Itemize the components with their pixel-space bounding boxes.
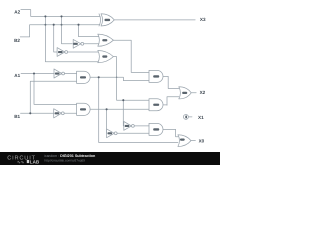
designator text NOT1 xyxy=(73,43,78,45)
wire OR5 output to X0 xyxy=(191,140,195,142)
wire AND3 output tap down to NOT6 input xyxy=(106,109,108,133)
junction on net B1 xyxy=(29,112,31,114)
wire B1 tap up to AND1 input B xyxy=(30,81,76,113)
junction on net B2 line2 at x78 xyxy=(77,24,79,26)
wire line1 tap to NOT1 input xyxy=(62,16,73,43)
inverter NOT1 xyxy=(73,39,84,48)
wire AND4 output to OR5 input A xyxy=(163,129,178,136)
and gate AND3 xyxy=(77,103,91,115)
svg-text:LAB: LAB xyxy=(30,159,40,164)
junction on net A2 line1 at x61 xyxy=(60,15,62,17)
designator text XOR1 xyxy=(105,19,111,21)
and gate AND2 xyxy=(149,70,163,82)
xor gate XOR1 xyxy=(99,14,114,26)
inverter NOT4 xyxy=(54,109,64,118)
and gate AND5 xyxy=(149,99,163,111)
wire NOT1 output to OR1 input B xyxy=(84,43,100,45)
svg-text:A1: A1 xyxy=(14,73,20,78)
designator text AND3 xyxy=(80,108,86,110)
wire NOT2 output to OR2 input A xyxy=(68,51,100,53)
wire crossing smudge at OR2 output column xyxy=(116,77,118,79)
wire crossing smudge at x45 line2 xyxy=(44,24,46,26)
junction at AND3 output xyxy=(106,108,108,110)
wire B2 to line2 xyxy=(20,25,100,37)
junction on net A2 line1 at x45 xyxy=(44,15,46,17)
junction at AND1 output xyxy=(98,76,100,78)
wire OR2 output down to AND5 input A xyxy=(113,57,149,101)
designator text NOT6 xyxy=(108,132,113,134)
inverter NOT6 xyxy=(107,129,118,138)
wire NOT3 output to AND1 input A xyxy=(65,73,77,75)
and gate AND1 xyxy=(77,71,90,83)
wire line2 tap to NOT2 input xyxy=(54,25,57,52)
wire AND1 output jog to AND2 input B xyxy=(90,77,149,80)
designator text AND2 xyxy=(153,75,159,77)
wire AND1 output down to OR5 input B xyxy=(99,77,178,142)
wire NOT4 output to AND3 input B xyxy=(64,112,76,114)
junction on net A1 xyxy=(33,72,35,74)
wire NOT5 output to AND4 input A xyxy=(134,125,149,127)
or gate OR2 xyxy=(98,50,114,62)
and gate AND4 xyxy=(149,123,163,135)
designator text OR2 xyxy=(102,55,107,57)
wire tap down to NOT5 input xyxy=(122,100,125,126)
designator text AND5 xyxy=(153,104,159,106)
wire line1 tap to OR2 input B xyxy=(45,16,99,61)
inverter NOT5 xyxy=(124,122,135,131)
wire OR1 output to AND2 input A xyxy=(113,40,149,72)
wire B1 to NOT4 input xyxy=(21,112,54,114)
wire flag tick to X1 xyxy=(189,116,192,118)
wire A2 to line1 xyxy=(21,10,100,17)
wire AND3 output to AND5 input B xyxy=(90,108,149,110)
wire AND5 output up to OR4 input B xyxy=(163,104,167,106)
designator text AND1 xyxy=(80,76,86,78)
svg-text:A2: A2 xyxy=(14,10,20,15)
svg-text:B2: B2 xyxy=(14,38,20,43)
wire AND2 output to OR4 input A xyxy=(163,76,179,88)
footer bar xyxy=(0,152,220,165)
wire A1 tap down to AND3 input A xyxy=(34,74,77,105)
or gate OR1 xyxy=(98,34,114,46)
wire OR4 input B riser xyxy=(167,97,179,106)
or gate OR5 xyxy=(178,135,191,147)
inverter NOT2 xyxy=(57,48,68,57)
designator text OR1 xyxy=(102,39,107,41)
wire OR4 output to X2 xyxy=(191,92,196,94)
designator text NOT3 xyxy=(55,73,60,75)
wire crossing smudge at x61 line2 xyxy=(61,24,63,26)
junction at OR2 output branch xyxy=(122,99,124,101)
designator text NOT4 xyxy=(55,112,60,114)
wire line2 tap to OR1 input A xyxy=(79,25,100,37)
svg-text:irandom : DIGI201 Subtraction: irandom : DIGI201 Subtraction xyxy=(45,154,97,158)
wire XOR1 output to X3 xyxy=(114,19,195,21)
svg-text:B1: B1 xyxy=(14,114,20,119)
circuitlab logo xyxy=(7,155,40,164)
wire NOT6 output to AND4 input B xyxy=(117,132,149,134)
svg-text:X3: X3 xyxy=(200,17,206,22)
wire A1 to NOT3 input xyxy=(21,73,54,75)
designator text OR5 xyxy=(180,139,185,141)
inverter NOT3 xyxy=(54,69,65,78)
or gate OR4 xyxy=(179,87,191,99)
designator text NOT2 xyxy=(58,51,63,53)
designator text OR4 xyxy=(182,92,187,94)
svg-text:X1: X1 xyxy=(198,115,204,120)
svg-text:∿∿: ∿∿ xyxy=(17,159,25,164)
svg-text:X2: X2 xyxy=(200,90,206,95)
svg-text:http//circuitlab.com/c/d7xq69: http//circuitlab.com/c/d7xq69 xyxy=(45,159,86,163)
junction on net B2 line2 at x54 xyxy=(53,24,55,26)
svg-text:X0: X0 xyxy=(199,138,205,143)
flag glyph d xyxy=(185,116,187,119)
designator text NOT5 xyxy=(125,125,130,127)
designator text AND4 xyxy=(153,128,159,130)
flag circle X1 xyxy=(183,114,188,119)
